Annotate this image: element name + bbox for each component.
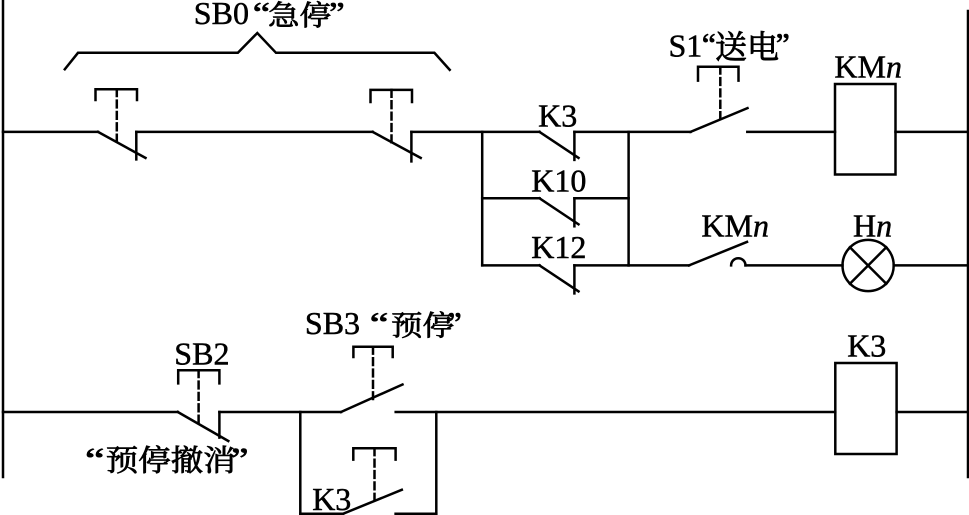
- label SB0 "急停": [194, 0, 343, 31]
- wire: right vertical supply line: [967, 11, 969, 477]
- label S1 "送电": [669, 27, 789, 63]
- wire rung2: left line to SB2: [3, 411, 178, 414]
- svg-text:K3: K3: [312, 481, 351, 515]
- label SB3 "预停": [305, 305, 460, 341]
- pushbutton S1 (NO, power-on): [691, 67, 748, 132]
- wire rung1: K3 contact to S1: [574, 131, 690, 134]
- wire: branch right vertical: [435, 412, 438, 514]
- svg-text:KMn: KMn: [701, 207, 769, 243]
- svg-text:SB0: SB0: [194, 0, 249, 31]
- pushbutton K3 (NO, in branch): [343, 448, 402, 514]
- relay contact K10: [540, 198, 579, 226]
- wire: branch bottom right: [396, 513, 437, 515]
- wire: branch bottom left: [300, 513, 343, 515]
- wire rung1: coil KMn to right supply line: [896, 131, 969, 134]
- contact KMn (NO contactor contact with operator arc): [689, 242, 747, 266]
- relay contact K3 (self-holding contact): [540, 132, 579, 160]
- svg-text:K10: K10: [531, 162, 586, 198]
- wire K10 row right: [574, 197, 628, 200]
- coil KMn (contactor coil): [835, 84, 896, 175]
- svg-text:Hn: Hn: [853, 207, 892, 243]
- pushbutton SB0 contact 2 (NC emergency stop): [371, 90, 421, 161]
- svg-text:K3: K3: [847, 327, 886, 363]
- wire: branch left vertical: [299, 412, 302, 514]
- svg-text:SB3: SB3: [305, 305, 360, 341]
- svg-text:S1: S1: [669, 27, 703, 63]
- wire lamp row: lamp to right supply line: [894, 264, 968, 267]
- wire: left vertical supply line: [2, 0, 5, 477]
- pushbutton SB2 (NC, pre-stop cancel): [178, 370, 229, 441]
- wire rung1: SB0 contact 2 to K3 contact: [411, 131, 539, 134]
- svg-text:K3: K3: [538, 98, 577, 134]
- coil K3 (relay coil): [835, 363, 896, 454]
- wire rung1: S1 to coil KMn: [747, 131, 835, 134]
- brace grouping the two SB0 contacts: [65, 33, 450, 70]
- svg-text:SB2: SB2: [174, 336, 229, 372]
- pushbutton SB3 (NO, pre-stop): [341, 347, 403, 412]
- wire: parallel block left bus: [481, 132, 484, 266]
- pushbutton SB0 contact 1 (NC emergency stop): [96, 89, 146, 159]
- svg-text:KMn: KMn: [834, 49, 902, 85]
- label "预停撤消": [87, 445, 246, 473]
- wire rung2: SB2 to SB3: [219, 411, 341, 414]
- wire K12 row left: [482, 264, 539, 267]
- wire K12 row right: [574, 264, 628, 267]
- wire lamp row: right bus to contact KMn: [629, 264, 689, 267]
- wire rung1: left line to SB0 contact 1: [3, 131, 98, 134]
- lamp Hn (indicator light): [843, 240, 894, 291]
- wire rung2: coil K3 to right supply line: [897, 411, 968, 414]
- wire rung1: between SB0 contacts: [136, 131, 372, 134]
- svg-text:K12: K12: [531, 229, 586, 265]
- wire: parallel block right bus: [627, 132, 630, 266]
- relay contact K12: [540, 265, 579, 293]
- wire K10 row left: [482, 197, 539, 200]
- wire lamp row: arc to lamp: [746, 264, 843, 267]
- wire rung2: SB3 to coil K3: [396, 411, 836, 414]
